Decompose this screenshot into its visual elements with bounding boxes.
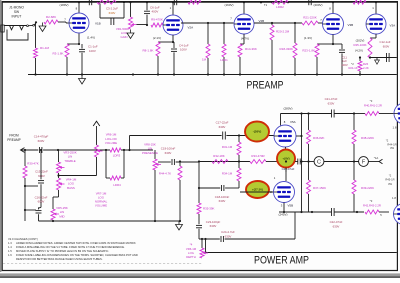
tube V3B (323, 14, 354, 35)
svg-text:1.8: 1.8 (392, 196, 396, 200)
svg-text:C12-1uF: C12-1uF (380, 40, 391, 44)
svg-text:R14-39K: R14-39K (245, 47, 257, 51)
label (189V) (59, 3, 68, 7)
svg-text:VOLUME: VOLUME (95, 203, 107, 207)
resistor R18-330K (279, 23, 297, 75)
svg-text:C: C (317, 160, 321, 166)
resistor R26 2.2K (348, 56, 368, 74)
svg-text:MOVED PLATE SUPPLY 'E' TO PROP: MOVED PLATE SUPPLY 'E' TO PROPER LEG3 IN… (16, 249, 109, 253)
tube V5A (274, 125, 296, 147)
LDR4 (106, 150, 124, 187)
svg-text:FROM: FROM (9, 134, 19, 138)
connector circle F (359, 157, 369, 167)
capacitor C24-4.7uF 630V (199, 230, 295, 242)
wire oval2 to V5B (285, 168, 287, 181)
label (200V) (313, 3, 322, 7)
svg-text:(160V): (160V) (224, 3, 233, 7)
highlight oval 27.5V (246, 181, 269, 198)
wire C14 to volume network (43, 149, 110, 151)
svg-text:FIXED A MISLABELING ON THE V4: FIXED A MISLABELING ON THE V4 TUBE. FIXE… (16, 245, 125, 249)
resistor R25-100K (368, 38, 372, 59)
junction ground rail x133 (132, 73, 134, 75)
svg-text:*3: *3 (370, 199, 373, 203)
jack J1 (1, 23, 36, 40)
wire V5A plate up (281, 114, 296, 126)
resistor R23-1.8K (302, 44, 319, 57)
wire V5A plate right (296, 135, 303, 137)
junction ground rail x240 (239, 73, 241, 75)
ground symbol preamp (79, 75, 86, 84)
svg-text:R26: R26 (363, 62, 369, 66)
tube V2A (163, 15, 193, 35)
junction ground rail x67 (66, 73, 68, 75)
bottom page edge strip (0, 273, 400, 278)
wire VR1 wiper node (137, 24, 149, 26)
junction ground rail x35.5 (34, 73, 36, 75)
label (1.4V) (87, 36, 95, 40)
resistor R21-220K (302, 16, 318, 25)
label R25-100K (353, 43, 366, 47)
potentiometer VR6-1M depth (186, 238, 208, 259)
svg-text:FIXED SOME LABELING DISCREPANC: FIXED SOME LABELING DISCREPANCIES ON THE… (16, 253, 138, 257)
ground tone stack (176, 221, 183, 230)
main cathode wire (295, 159, 314, 165)
svg-text:630V: 630V (210, 224, 217, 228)
wire R1 to ground rail (35, 58, 37, 75)
highlight oval -26V (245, 122, 269, 142)
resistor R14-39K (238, 44, 257, 57)
svg-text:LDR1: LDR1 (220, 58, 228, 62)
left page edge shadow (0, 0, 1, 272)
capacitor C21-47nF 630V (325, 97, 356, 117)
wire rail to VR1 (130, 2, 132, 17)
svg-text:600V: 600V (38, 139, 45, 143)
wire V3A cathode (370, 34, 376, 38)
svg-text:J1-MONO: J1-MONO (9, 6, 24, 10)
capacitor C22-47nF 630V (330, 208, 364, 228)
svg-text:V1B: V1B (95, 22, 101, 26)
resistor R4 (plate, on rail) (97, 0, 116, 4)
label (2.1V) (153, 36, 161, 40)
wire R30 branch stubs (24, 185, 38, 211)
note line 1 (8, 241, 137, 245)
OD volume arrow (93, 121, 117, 145)
svg-text:R38-220K: R38-220K (361, 136, 374, 140)
svg-text:630V: 630V (165, 151, 172, 155)
svg-text:(202V): (202V) (356, 38, 365, 42)
junction T1 (260, 1, 268, 7)
svg-text:1.4: 1.4 (8, 245, 12, 249)
grid feed long wire (130, 135, 222, 137)
svg-text:RESISTOR FOR BETTER BIAS RANGE: RESISTOR FOR BETTER BIAS RANGE WHEN USIN… (16, 257, 103, 261)
svg-text:V2.0 CHANGES (CONT): V2.0 CHANGES (CONT) (8, 237, 38, 241)
svg-text:600V: 600V (38, 200, 45, 204)
ground at input (39, 23, 46, 32)
label *1A with arrow (374, 156, 383, 164)
svg-text:400V: 400V (152, 10, 159, 14)
grid feed corner (128, 136, 130, 152)
wire V5B cathode down (283, 203, 285, 214)
svg-text:R42,R43-2.2R: R42,R43-2.2R (363, 204, 381, 208)
capacitor C23-100pF 630V (196, 220, 220, 239)
svg-text:LDR3: LDR3 (113, 153, 121, 157)
svg-text:630V: 630V (219, 125, 226, 129)
svg-text:R39-220K: R39-220K (361, 186, 374, 190)
svg-text:V5A: V5A (290, 120, 296, 124)
potentiometer VR8-26K presence (142, 142, 161, 221)
resistor R42 R43-2.2R (311, 199, 389, 214)
wire jack to R1 (35, 23, 37, 48)
resistor R36-82K (307, 114, 325, 162)
LDR1 (220, 23, 228, 75)
svg-text:BASS: BASS (67, 186, 75, 190)
svg-text:R23-1.8K: R23-1.8K (302, 48, 315, 52)
label FROM PREAMP (7, 134, 20, 142)
svg-text:630V: 630V (225, 234, 232, 238)
svg-text:R35-39K: R35-39K (203, 206, 214, 210)
capacitor C4-1uF 100V (171, 42, 189, 75)
plate row wire (281, 112, 332, 114)
label VR7-1M LOG NORMAL VOLUME (95, 191, 108, 207)
svg-text:R37-150K: R37-150K (313, 186, 326, 190)
preamp ground rail (28, 74, 397, 76)
title separator line (204, 238, 396, 254)
notes title (8, 237, 38, 241)
svg-text:ADDED DISCLAIMER NOTES. ADDED: ADDED DISCLAIMER NOTES. ADDED CENTER TAP… (16, 241, 137, 245)
svg-text:R40,R41-2.2R: R40,R41-2.2R (364, 103, 382, 107)
svg-text:V2B: V2B (259, 19, 265, 23)
LDR3 (110, 148, 121, 157)
capacitor C15-22nF 600V (35, 150, 48, 207)
resistor R39-220K (352, 162, 374, 213)
wire V2B to V3 grid row (254, 22, 302, 24)
label (4.2V) (355, 49, 363, 53)
capacitor C12-1uF 600V (380, 40, 391, 62)
svg-text:(189V): (189V) (59, 3, 68, 7)
tube V3A (366, 14, 395, 34)
junction on B+ rail x272 (271, 1, 273, 3)
LDR2 (272, 0, 288, 9)
junction ground rail x342 (341, 73, 343, 75)
svg-text:2.2K: 2.2K (363, 66, 369, 70)
resistor R37-150K (307, 162, 327, 213)
capacitor C3-2.2uF (106, 7, 118, 25)
label (1.3V) (304, 36, 312, 40)
svg-text:R24-1K: R24-1K (348, 66, 357, 70)
resistor R22 (on rail) (353, 0, 366, 4)
tube V2B (234, 14, 264, 34)
svg-text:V3A: V3A (390, 23, 396, 27)
B+ rail (2, 1, 397, 3)
input arrow (21, 148, 39, 153)
small ground V3A (375, 58, 380, 65)
resistor R44-4.7K (159, 160, 182, 222)
svg-text:3W: 3W (388, 182, 392, 186)
svg-text:630V: 630V (109, 11, 116, 15)
svg-text:V2A: V2A (188, 26, 194, 30)
svg-text:DEPTH: DEPTH (186, 255, 195, 259)
ground at VR1 (127, 30, 134, 39)
rail cap C10 (309, 0, 311, 5)
svg-text:(4.7V): (4.7V) (241, 36, 249, 40)
capacitor C16-22nF 600V (35, 195, 48, 221)
svg-text:1.6: 1.6 (8, 253, 12, 257)
fold line (3, 263, 202, 265)
coupling box (100, 1, 132, 18)
wire V3A plate to rail (372, 2, 376, 14)
junction on B+ rail x261 (260, 1, 262, 3)
label R45-1R 3W (385, 173, 394, 185)
svg-text:R34-1M: R34-1M (222, 172, 233, 176)
capacitor C14-470pF 600V (34, 135, 49, 153)
label R20-2.2M (276, 29, 290, 33)
grid feed wire (198, 160, 250, 162)
svg-text:R21-220K: R21-220K (303, 16, 317, 20)
resistor R33-470R (250, 154, 278, 164)
note line 5 (16, 257, 103, 261)
resistor R31-1M (222, 136, 241, 162)
svg-text:V5B: V5B (288, 204, 294, 208)
svg-text:R2-68K: R2-68K (46, 15, 56, 19)
wire V2A cathode (158, 35, 174, 43)
svg-text:POWER AMP: POWER AMP (254, 254, 309, 266)
junction ground rail x82 (81, 73, 83, 75)
svg-text:+(27.5V): +(27.5V) (252, 188, 263, 192)
junction at jack output (35, 21, 37, 23)
capacitor C11 1uF 100V (333, 44, 348, 75)
svg-text:R3-1.8K: R3-1.8K (52, 52, 63, 56)
svg-text:R31-1M: R31-1M (222, 145, 233, 149)
potentiometer VR4-1M bass (53, 173, 77, 197)
svg-text:R9-470K: R9-470K (151, 18, 163, 22)
highlight oval 0V (277, 150, 295, 168)
tube V5B (270, 176, 294, 208)
svg-text:630V: 630V (333, 224, 340, 228)
rail cap C8 (174, 0, 176, 5)
svg-text:PRESENCE: PRESENCE (142, 151, 158, 155)
svg-text:1.5: 1.5 (8, 249, 12, 253)
svg-text:100V: 100V (89, 49, 96, 53)
junction on B+ rail x376 (375, 1, 377, 3)
label C20-47uF (282, 167, 295, 171)
resistor R13-1M (202, 23, 210, 75)
junction ground rail x174 (173, 73, 175, 75)
svg-text:R30-47K: R30-47K (27, 162, 38, 166)
svg-text:V3B: V3B (348, 23, 354, 27)
svg-text:1.3: 1.3 (8, 241, 12, 245)
svg-text:600V: 600V (38, 174, 45, 178)
svg-text:(245V): (245V) (278, 212, 287, 216)
svg-text:-(26V): -(26V) (253, 130, 262, 134)
POWER AMP title (254, 254, 309, 266)
tube V6 clipped (380, 196, 400, 225)
label J1-MONO SW INPUT (9, 6, 24, 19)
resistor R30-47K (23, 149, 39, 221)
svg-text:PREAMP: PREAMP (247, 80, 284, 92)
svg-text:R1-1M: R1-1M (40, 46, 50, 50)
svg-text:GAIN: GAIN (120, 35, 127, 39)
resistor R8-1.8K (142, 42, 160, 56)
wire C24 up to cathode rail (294, 212, 296, 239)
svg-text:LDR2: LDR2 (276, 5, 284, 9)
svg-text:TREBLE: TREBLE (64, 159, 75, 163)
svg-text:1.8: 1.8 (393, 126, 397, 130)
svg-text:(2.1V): (2.1V) (153, 36, 161, 40)
wire F to arrow (368, 161, 379, 163)
svg-text:*2: *2 (351, 62, 354, 66)
svg-text:1M: 1M (202, 58, 207, 62)
svg-text:R25-100K: R25-100K (353, 43, 366, 47)
svg-text:600V: 600V (383, 44, 390, 48)
long vertical A (300, 112, 302, 213)
potentiometer VR6 OD volume (95, 145, 103, 157)
junction ground rail x295 (294, 73, 296, 75)
svg-text:C20-47uF: C20-47uF (282, 167, 295, 171)
svg-text:(1.3V): (1.3V) (304, 36, 312, 40)
svg-text:100V: 100V (180, 48, 187, 52)
wire R23 to ground rail (316, 57, 318, 75)
wire R9 to V2A grid (163, 24, 166, 26)
junction ground rail x224 (223, 73, 225, 75)
resistor R3-1.8K (52, 44, 69, 57)
cathode out wire (370, 57, 397, 59)
wire V5B grid feed (240, 191, 273, 193)
junction on B+ rail x333 (332, 1, 334, 3)
junction on B+ rail x79 (78, 1, 80, 3)
capacitor C18-100nF 630V (198, 185, 239, 203)
svg-text:MID: MID (59, 214, 64, 218)
svg-text:PREAMP: PREAMP (7, 138, 20, 142)
wire vol left (105, 150, 107, 178)
wire R3 to ground rail (66, 57, 68, 75)
wire V5A grid feed (226, 134, 274, 136)
resistor R32-18K (212, 154, 228, 164)
label R44-1R 3W (386, 139, 397, 151)
resistor R1-1M (34, 46, 50, 58)
label (280V) (283, 106, 292, 110)
junction ground rail x158 (157, 73, 159, 75)
resistor R2-68K (44, 15, 58, 24)
wire cathode through oval (285, 152, 287, 172)
note line 2 (8, 245, 125, 249)
wire V3B cathode (317, 35, 334, 46)
junction R13 tap (207, 22, 209, 24)
connector circle C (314, 157, 324, 167)
wire R8 to ground rail (157, 56, 159, 75)
junction ground rail x360 (359, 73, 361, 75)
junction ground rail x317 (316, 73, 318, 75)
junction on B+ rail x147 (146, 1, 148, 3)
svg-text:630V: 630V (219, 199, 226, 203)
svg-text:R8-1.8K: R8-1.8K (142, 49, 153, 53)
svg-text:VOLUME: VOLUME (105, 141, 117, 145)
resistor R35-39K (197, 203, 214, 224)
svg-text:3W: 3W (390, 146, 394, 150)
svg-text:+(0V): +(0V) (282, 157, 289, 161)
junction ground rail x208 (207, 73, 209, 75)
svg-text:LDR4: LDR4 (113, 183, 121, 187)
wire treble top (58, 150, 60, 162)
wire left col (198, 162, 200, 204)
svg-text:(1.4V): (1.4V) (87, 36, 95, 40)
capacitor C19-100nF 630V (158, 147, 199, 165)
wire V1B cathode (67, 34, 80, 46)
svg-text:R36-82K: R36-82K (313, 136, 324, 140)
wire V1B plate to rail (76, 2, 79, 13)
svg-text:R45-1R: R45-1R (385, 178, 394, 182)
wire R14 to ground rail (239, 57, 241, 75)
label (202V) (356, 38, 365, 42)
junction on B+ rail x288 (287, 1, 289, 3)
resistor R38-220K (352, 114, 374, 162)
svg-text:C17-22uF: C17-22uF (216, 120, 229, 124)
potentiometer VR3-250K treble (57, 150, 77, 173)
wire V2B cathode (240, 34, 244, 44)
wire LDR3 right (105, 149, 153, 151)
svg-text:*1A: *1A (374, 156, 379, 160)
wire C to F (324, 160, 359, 162)
svg-text:C21-47nF: C21-47nF (325, 97, 338, 101)
wire V3B plate to rail (329, 2, 333, 13)
capacitor C6-1uF 400V (144, 2, 160, 25)
svg-text:(280V): (280V) (283, 106, 292, 110)
output row wire (279, 211, 332, 213)
label (4.7V) (241, 36, 249, 40)
svg-text:SW: SW (14, 10, 20, 14)
wire R21 to V3B grid (318, 18, 323, 23)
svg-text:R44-4.7K: R44-4.7K (159, 171, 171, 175)
svg-text:100V: 100V (341, 63, 348, 67)
tube V1B (69, 13, 101, 33)
wire V2B plate to rail (230, 2, 244, 20)
svg-text:R44-1R: R44-1R (387, 142, 396, 146)
rail cap C2 (89, 0, 91, 5)
wire V2A to V2B grid (181, 22, 234, 24)
junction LDR1 tap (223, 22, 225, 24)
resistor R9-470K (151, 18, 163, 27)
svg-text:INPUT: INPUT (12, 14, 22, 18)
svg-text:R33-470R: R33-470R (251, 154, 264, 158)
svg-text:(4.2V): (4.2V) (355, 49, 363, 53)
junction on B+ rail x244 (243, 1, 245, 3)
svg-text:R20-2.2M: R20-2.2M (276, 29, 290, 33)
svg-text:R18-330K: R18-330K (279, 47, 293, 51)
capacitor C1-1uF 100V (79, 44, 98, 75)
tone bottom rail (39, 220, 180, 222)
wire OD volume bottom (59, 157, 97, 176)
note line 3 (8, 249, 109, 253)
potentiometer VR5-25K mid (51, 197, 68, 221)
PREAMP title (247, 80, 284, 92)
junction ground rail x272 (271, 73, 273, 75)
label (245V) (278, 212, 287, 216)
resistor R40 R41-2.2R (354, 99, 394, 115)
resistor R34-1M (222, 162, 241, 189)
capacitor C17-22uF 630V (216, 120, 229, 139)
resistor R17 (on rail) (188, 0, 201, 4)
svg-text:630V: 630V (328, 102, 335, 106)
tube V4A clipped (393, 103, 400, 130)
wire R2 to V1B grid (58, 17, 70, 23)
note line 4 (8, 253, 138, 257)
junction on B+ rail x173 (172, 1, 174, 3)
wire V2A plate to rail (170, 2, 173, 15)
label (160V) (224, 3, 233, 7)
svg-text:R32-18K: R32-18K (213, 154, 224, 158)
junction tone node (40, 149, 59, 151)
resistor R20-2.2M (270, 23, 274, 75)
potentiometer VR1-500K (116, 17, 137, 39)
